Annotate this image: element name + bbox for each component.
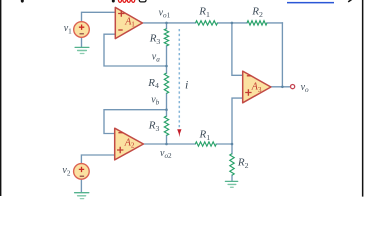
junction node b — [165, 108, 168, 111]
wire A1 output to R1 — [142, 22, 195, 24]
junction node vo2 — [165, 143, 168, 146]
op-amp A3 minus sign — [247, 75, 251, 77]
wire A1 feedback: node a to A1 - input — [104, 34, 167, 66]
wire top-right corner down to A3 output (feedback) — [281, 23, 283, 87]
voltage source v1 — [74, 22, 90, 38]
svg-text:vo1: vo1 — [159, 8, 171, 20]
resistor R3 upper zigzag — [164, 29, 168, 46]
svg-text:vo: vo — [301, 82, 309, 94]
cut-off blue hyperlink underline — [287, 2, 334, 4]
svg-text:R2: R2 — [251, 6, 263, 19]
junction bottom row to A3 + — [231, 143, 234, 146]
wire R3 lower to node vo2 — [166, 135, 168, 144]
svg-text:R2: R2 — [237, 156, 249, 169]
source v2 plus — [79, 167, 84, 172]
source v1 plus — [79, 25, 84, 30]
wire node b to R3 lower — [166, 110, 168, 116]
svg-text:R4: R4 — [147, 77, 159, 90]
op-amp A2 minus sign — [118, 132, 122, 134]
wire v2 bottom to ground — [80, 179, 82, 192]
ground under v1 — [75, 47, 89, 53]
wire R3 to node a — [166, 46, 168, 66]
page right border — [362, 0, 364, 197]
wire v2 top to A2 + input — [81, 155, 115, 164]
resistor R3 lower zigzag — [164, 116, 168, 136]
svg-text:R1: R1 — [198, 6, 210, 19]
wire R1 to R2 top row — [218, 22, 248, 24]
op-amp A1 — [115, 7, 142, 38]
wire R1 bottom to junction — [216, 143, 232, 145]
wire bottom junction up to A3 + input — [232, 98, 243, 144]
source v2 minus — [80, 175, 84, 177]
op-amp A2 — [115, 128, 144, 160]
wire node vo1 to R3 — [166, 23, 168, 29]
svg-text:vb: vb — [151, 94, 159, 106]
resistor R1 bottom zigzag — [195, 142, 216, 146]
svg-text:R3: R3 — [149, 33, 161, 46]
current arrowhead (red) — [177, 129, 181, 137]
resistor R1 top zigzag — [196, 21, 218, 25]
wire A2 output to R1 bottom — [143, 143, 195, 145]
svg-text:va: va — [152, 52, 160, 64]
svg-text:v2: v2 — [62, 165, 70, 177]
resistor R2 bottom zigzag — [230, 154, 234, 176]
op-amp A2 plus sign — [117, 147, 123, 153]
dashed current line — [178, 29, 180, 128]
cut-off glyph fragment top-right — [348, 0, 352, 2]
junction node a — [165, 65, 168, 68]
cut-off glyph fragment top-left — [21, 0, 24, 3]
wire A3 output to terminal — [271, 86, 291, 88]
ground under R2 bottom — [225, 181, 237, 187]
cut-off black glyph after red text — [139, 0, 146, 2]
op-amp A3 plus sign — [245, 89, 251, 95]
output terminal circle — [291, 85, 295, 89]
cut-off glyph fragment (dot before red text) — [112, 0, 115, 3]
wire junction down to R2 bottom — [231, 144, 233, 154]
ground under v2 — [75, 193, 89, 199]
svg-text:R1: R1 — [199, 129, 211, 142]
wire top junction down to A3 - input — [232, 23, 243, 75]
wire v1 top to A1 + input — [82, 12, 116, 21]
source v1 minus — [80, 33, 84, 35]
op-amp A1 minus sign — [118, 29, 122, 31]
junction node vo1 — [165, 22, 168, 25]
voltage source v2 — [74, 164, 90, 180]
page left border — [0, 0, 1, 196]
junction feedback at A3 output — [281, 86, 284, 89]
wire R2 bottom to ground — [231, 175, 233, 181]
op-amp A1 plus sign — [118, 10, 124, 16]
wire R4 to node b — [166, 93, 168, 109]
resistor R2 top zigzag — [247, 21, 267, 25]
svg-text:vo2: vo2 — [160, 148, 172, 160]
op-amp A3 — [243, 71, 271, 103]
wire A2 feedback: node b to A2 - input — [104, 110, 167, 134]
wire node a to R4 — [166, 66, 168, 73]
svg-text:i: i — [185, 78, 188, 92]
svg-text:v1: v1 — [64, 23, 72, 35]
svg-text:R3: R3 — [148, 120, 160, 133]
resistor R4 zigzag — [164, 73, 168, 93]
wire v1 bottom to ground — [81, 37, 83, 47]
wire R2 to top-right corner — [267, 22, 282, 24]
cut-off red digits "0000" — [118, 0, 134, 2]
junction top row to A3 - — [231, 22, 234, 25]
